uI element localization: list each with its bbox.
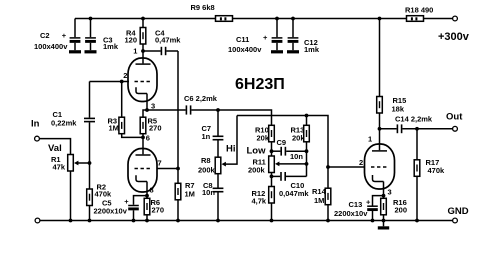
svg-text:8: 8 [150,186,154,195]
resistor R7 [177,169,179,184]
svg-text:270: 270 [152,206,165,215]
wire grid V2 [328,166,365,168]
svg-text:4,7k: 4,7k [252,197,267,206]
svg-text:20k: 20k [257,133,270,142]
resistor R17 [416,129,418,160]
svg-text:C9: C9 [277,138,287,147]
node anode V2 / R15 / C14 [378,127,382,131]
grid V1a dashes [135,81,151,83]
resistor R12 [271,176,273,186]
node wiper / C1 / R2 [88,161,92,165]
node 6 anode V1b [141,136,145,140]
node cathode V2 [382,194,386,198]
wire top supply rail right of R9 [233,18,407,20]
svg-text:R14: R14 [312,187,327,196]
cathode V2 [373,175,384,182]
wire top supply rail left of R9 [75,18,216,20]
svg-text:R18 490: R18 490 [405,6,433,15]
wire cathode output line [147,109,186,111]
node top rail / R15 [378,17,382,21]
node top rail / C12 [291,17,295,21]
resistor R3 [121,82,123,118]
grid V1b wire to node 7 [157,168,178,170]
resistor R18 [407,16,424,22]
resistor R4 [142,19,144,28]
svg-text:6: 6 [146,133,150,142]
svg-text:+: + [124,197,129,206]
node pin1 tube V1 [141,49,145,53]
anode V1b [142,137,144,154]
wire R18 to +300v terminal [424,18,453,20]
svg-text:100x400v: 100x400v [34,42,68,51]
capacitor C1 [89,82,91,118]
svg-text:1M: 1M [109,124,119,133]
resistor R15 [379,19,381,97]
capacitor C2 [74,19,76,38]
svg-text:0,47mk: 0,47mk [155,36,181,45]
capacitor C10 [272,175,281,177]
ground bar of C3 [85,50,97,53]
triode V1a envelope [128,58,157,102]
capacitor C3 [90,19,92,38]
svg-text:+: + [263,33,268,42]
ground bar of C2 [69,50,81,53]
resistor R6 [146,196,148,199]
capacitor C8 [217,174,219,188]
svg-text:1: 1 [133,47,137,56]
node top rail / C11 [275,17,279,21]
triode V2 envelope [365,144,395,189]
resistor R5 [143,110,147,117]
svg-text:1M: 1M [314,196,324,205]
svg-text:200k: 200k [198,166,216,175]
node B R11/R12/C10 [270,175,274,179]
wire Hi line to R14 corner [237,116,328,168]
capacitor C14 [396,124,398,133]
svg-text:R8: R8 [201,156,211,165]
svg-text:20k: 20k [292,133,305,142]
svg-text:18k: 18k [392,105,405,114]
svg-text:R9 6k8: R9 6k8 [191,3,215,12]
grid V1b dashes [135,168,151,170]
svg-text:6Н23П: 6Н23П [235,76,285,93]
In terminal [35,136,40,141]
svg-text:2: 2 [359,158,363,167]
svg-text:270: 270 [149,124,162,133]
resistor R10 [269,125,275,142]
capacitor C6 [185,105,187,114]
wire In to R1 [39,139,70,155]
svg-text:C2: C2 [40,31,50,40]
resistor R14 [327,167,329,188]
svg-text:0,047mk: 0,047mk [279,189,309,198]
svg-text:3: 3 [388,188,392,197]
svg-text:1: 1 [368,135,372,144]
svg-text:Low: Low [247,146,267,157]
capacitor C4 [160,47,162,55]
node 8 [145,194,149,198]
potentiometer R1 [68,155,74,172]
wire C4 to grid2 drop [166,50,178,52]
anode V2 [379,129,381,150]
node C6 output / C7 [216,108,220,112]
capacitor C7 [217,110,219,136]
svg-text:200: 200 [395,206,408,215]
wire C6 to R10 corner [191,110,271,125]
ground bar of C12 [287,50,299,53]
svg-text:100x400v: 100x400v [228,45,262,54]
resistor R9 [216,16,233,22]
wire C4 drop to node 7 [177,51,179,169]
svg-text:200k: 200k [248,166,266,175]
svg-text:1M: 1M [185,190,195,199]
resistor R2 [89,163,91,189]
node 7 [176,167,180,171]
capacitor C9 [272,150,281,152]
terminal GND [453,218,458,223]
svg-text:0,22mk: 0,22mk [51,119,77,128]
capacitor C5 [134,196,148,205]
node 3 cathode V1a [145,108,149,112]
svg-text:120: 120 [125,36,138,45]
resistor R13 [306,116,308,126]
svg-text:7: 7 [158,158,162,167]
svg-text:2200x10v: 2200x10v [334,209,368,218]
wire pin1 to C4 [143,50,161,52]
capacitor C12 [292,19,294,38]
terminal bottom left [35,218,40,223]
svg-text:C11: C11 [236,35,249,44]
wire anode V2 to C14 [380,128,397,130]
svg-text:Out: Out [446,112,463,123]
svg-text:1n: 1n [202,132,211,141]
svg-text:+300v: +300v [438,31,470,43]
svg-text:47k: 47k [53,163,66,172]
node top rail / R4 [141,17,145,21]
potentiometer R8 [215,157,221,174]
svg-text:Val: Val [48,143,62,154]
svg-text:10n: 10n [290,152,303,161]
ground symbol below R16 [378,226,389,229]
svg-text:C14 2,2mk: C14 2,2mk [395,115,433,124]
node R13 top [305,114,309,118]
pin2 grid wire to C1 [90,81,130,83]
svg-text:470k: 470k [428,166,446,175]
svg-text:+: + [62,31,67,40]
node A R10/R11/C9 [270,149,274,153]
terminal Out [453,126,458,131]
node R17 / out line [415,127,419,131]
wire C14 to Out terminal [402,128,452,130]
resistor R16 [383,196,385,199]
svg-text:GND: GND [448,206,469,217]
node grid1 / R3 [120,80,124,84]
svg-text:C13: C13 [349,200,363,209]
node top rail / C3 [89,17,93,21]
svg-text:C6 2,2mk: C6 2,2mk [184,94,218,103]
terminal +300v [453,16,458,21]
svg-text:+: + [366,198,371,207]
cathode V1a [136,87,147,93]
capacitor C13 [373,196,384,206]
svg-text:470k: 470k [95,190,113,199]
node grid V2 / R14 [326,165,330,169]
potentiometer R11 [271,151,273,156]
cathode V1b [136,175,147,181]
grid V2 dashes [371,166,387,168]
svg-text:In: In [31,118,40,129]
svg-text:3: 3 [151,102,155,111]
triode V1b envelope [128,149,157,193]
svg-text:1mk: 1mk [103,42,119,51]
bottom ground rail [40,220,453,222]
capacitor C11 [276,19,278,38]
svg-text:Hi: Hi [226,144,236,155]
svg-text:1mk: 1mk [304,45,320,54]
svg-text:2: 2 [123,71,127,80]
svg-text:10n: 10n [202,188,215,197]
svg-text:2200x10v: 2200x10v [94,207,128,216]
anode V1a [142,51,144,63]
ground bar of C11 [271,50,283,53]
